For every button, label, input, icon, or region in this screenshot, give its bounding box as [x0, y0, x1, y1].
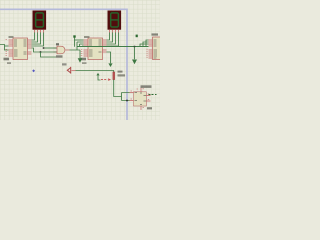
U5 pin names: [154, 40, 158, 58]
green net text right of U4: [149, 94, 157, 96]
U1 left input bus: [0, 45, 9, 51]
wires DS1 to U1 outputs (staircase): [32, 33, 44, 47]
U1 pin number texts (red): [6, 39, 8, 55]
junction + branch down to label stub: [40, 51, 42, 53]
ground branch near U5: [134, 47, 136, 60]
R1 value text: [118, 74, 126, 76]
background grid: [0, 0, 160, 120]
U1 left pins: [9, 40, 14, 56]
7-seg display DS2 segments: [111, 13, 119, 27]
junction on display wire: [43, 47, 45, 49]
U2 right pins: [103, 40, 107, 52]
U1 right pins: [28, 40, 32, 54]
U5 pin number texts (red): [146, 49, 148, 57]
U1 pin name text (dark marks): [14, 40, 27, 56]
buzzer LS1 (red component): [67, 67, 70, 74]
sheet border (blue): [0, 9, 127, 120]
U2 left pins: [84, 40, 89, 56]
U5 input staircase: [140, 40, 149, 47]
U2 input comb from net: [75, 38, 84, 47]
U3:A label below: [56, 55, 63, 57]
U4 pin number texts (red): [131, 89, 150, 108]
U1 ref label above: [9, 36, 14, 38]
IC U4 555 body: [134, 92, 147, 106]
wire U2 pin to ground: [107, 52, 111, 63]
U4 left pins: [130, 93, 134, 101]
wire U1 pin48 to gate bottom input: [32, 48, 57, 52]
U4 ref label above: [141, 85, 152, 88]
U5 ref label above: [152, 33, 159, 35]
LS1 gray label: [62, 63, 67, 65]
7-seg display DS2 body: [108, 11, 122, 30]
wire gate output to net / ground: [70, 47, 81, 59]
U4 label below: [147, 107, 152, 109]
gate input pins: [54, 48, 58, 52]
wires DS2 to U2 outputs (staircase): [107, 33, 119, 47]
U4 right pins: [147, 96, 151, 102]
ground symbol (arrow) near gate: [78, 58, 83, 63]
U5 left pins: [149, 40, 153, 58]
AND gate U3:A body: [57, 46, 65, 54]
U4 top pin text: [137, 88, 138, 90]
long net wire to U5: [77, 46, 149, 48]
power arrow (up): [96, 73, 99, 76]
ground symbol (arrow) near U5: [132, 60, 137, 65]
wire U1 pin to gate top input: [44, 47, 57, 49]
net tag (green) above comb: [73, 35, 75, 37]
wire LS1 to R1: [76, 71, 114, 73]
IC U2 body: [88, 38, 103, 60]
wire R1 bottom to 555: [114, 80, 130, 101]
U2 pin name text (dark marks): [89, 40, 102, 56]
IC U5 body (clipped at right edge): [153, 37, 163, 60]
U4 bottom pin: [140, 106, 142, 110]
R1 ref text: [118, 71, 123, 73]
wire branch to net label: [41, 52, 57, 57]
junction near pin: [126, 100, 128, 102]
7-seg display DS1 body: [33, 11, 47, 30]
resistor R1 (vertical): [113, 72, 115, 80]
ground symbol below U2 wire: [108, 63, 112, 67]
DS2 pins (red stubs): [110, 30, 119, 33]
DS1 pins (red stubs): [35, 30, 44, 33]
U2 ref label above: [84, 36, 90, 38]
U2 value label bottom-left: [80, 58, 87, 61]
LS1 output pin: [72, 70, 76, 72]
IC U1 body: [13, 38, 28, 60]
7-seg display DS1 segments: [36, 13, 44, 27]
U2 pin number texts (red): [81, 49, 83, 55]
junction on long net at ground branch: [134, 46, 136, 48]
U4 top pin: [140, 88, 142, 92]
gate output pin: [66, 49, 70, 51]
U3:A label above: [56, 43, 59, 45]
pot wiper arrow (red, dashed): [101, 79, 108, 81]
net tag (green): [136, 35, 138, 38]
U1 value label bottom-left: [4, 58, 10, 61]
U4 pin names: [135, 93, 147, 105]
origin marker (blue): [32, 69, 35, 72]
